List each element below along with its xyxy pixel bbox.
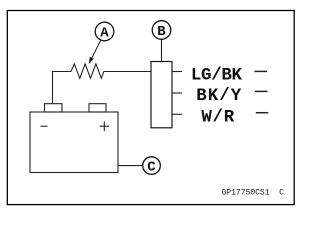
svg-text:BK/Y: BK/Y <box>196 86 242 106</box>
svg-text:A: A <box>100 26 109 42</box>
svg-text:LG/BK: LG/BK <box>191 65 243 85</box>
svg-text:B: B <box>157 24 166 40</box>
svg-text:C: C <box>147 160 156 176</box>
svg-text:GP17750CS1 C: GP17750CS1 C <box>222 189 285 198</box>
svg-text:W/R: W/R <box>201 107 234 127</box>
